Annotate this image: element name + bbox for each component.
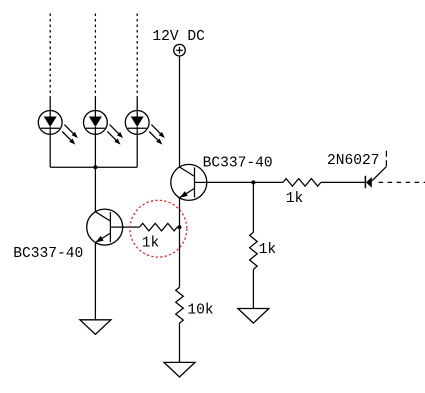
junction node R1/emitter (178, 225, 182, 229)
wire Q2 base to R1 (123, 226, 140, 228)
svg-text:12V DC: 12V DC (152, 29, 205, 45)
ground left (80, 320, 111, 335)
ground right (238, 309, 269, 324)
thyristor U1 2N6027 (365, 149, 425, 188)
ground middle (164, 362, 195, 377)
resistor R2 1k (horizontal) (283, 179, 321, 187)
wire LED1 anode (49, 97, 51, 111)
supply terminal + (174, 44, 186, 56)
wire LED3 cathode (136, 134, 138, 167)
wire Q1 emitter down (179, 198, 181, 287)
wire LED2 cathode (94, 134, 96, 167)
svg-text:1k: 1k (142, 235, 160, 251)
svg-text:1k: 1k (286, 191, 304, 207)
resistor R4 10k (176, 287, 184, 323)
wire supply to Q1 collector (179, 56, 181, 167)
transistor Q1 BC337-40 (171, 164, 207, 200)
transistor Q2 BC337-40 (87, 209, 123, 245)
LED D2 (84, 111, 124, 145)
wire R4 to ground (179, 323, 181, 362)
wire R3 to ground (252, 269, 254, 308)
svg-text:10k: 10k (187, 302, 214, 318)
svg-text:1k: 1k (259, 242, 277, 258)
dashed light ray 3 (136, 14, 138, 98)
wire LED3 anode (136, 97, 138, 111)
wire Q2 emitter to ground (94, 243, 96, 320)
wire LED2 anode (94, 97, 96, 111)
wire node down to R3 (252, 182, 254, 232)
junction LED bus (93, 165, 97, 169)
svg-text:2N6027: 2N6027 (327, 153, 380, 169)
wire LED bus (50, 166, 137, 168)
resistor R1 1k (circled) (140, 223, 178, 231)
dashed light ray 1 (49, 14, 51, 98)
wire bus to Q2 collector (94, 167, 96, 212)
dashed light ray 2 (94, 14, 96, 98)
svg-text:BC337-40: BC337-40 (203, 155, 273, 171)
wire R2 to PUT (321, 181, 365, 183)
resistor R3 1k (vertical) (250, 232, 258, 269)
svg-text:BC337-40: BC337-40 (13, 246, 83, 262)
LED D1 (38, 111, 78, 145)
wire R1 to node (177, 226, 179, 228)
junction node base/R2/R3 (251, 180, 255, 184)
wire Q1 base to node (207, 181, 283, 183)
wire LED1 cathode (49, 134, 51, 167)
highlight circle (red dashed) (130, 200, 187, 257)
LED D3 (125, 111, 165, 145)
